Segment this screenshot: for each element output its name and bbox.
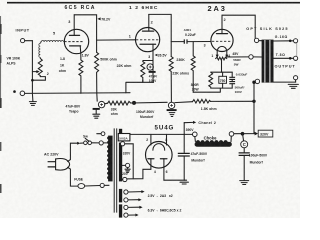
cap 0.033uF label xyxy=(236,73,248,77)
border frame top line xyxy=(7,2,300,4)
capacitor C-A 47uF-86V Teapo electrolytic xyxy=(93,101,105,113)
ground symbol cap A xyxy=(93,114,100,118)
V1 pins 1-8 label xyxy=(60,57,65,61)
capacitor V2 cathode bypass 47uF xyxy=(147,61,156,83)
V1 plate bar xyxy=(69,34,79,36)
V2 pin 2 label xyxy=(151,21,153,25)
PT HV tap2 terminal xyxy=(122,177,127,181)
cap 47uF label xyxy=(191,152,208,163)
wire V1 plate to V2 grid xyxy=(97,39,136,41)
V1 pin 3 label xyxy=(68,20,70,24)
resistor 1K cathode label xyxy=(59,64,66,73)
2A3 grid dashed xyxy=(212,40,232,42)
node 390V label xyxy=(186,128,195,132)
power transformer core xyxy=(114,128,117,212)
AC wires to switch and fuse xyxy=(68,142,84,162)
5U4G pin 6 label xyxy=(166,170,168,174)
wire OPT bottom to 320V node xyxy=(253,82,255,133)
label 320V tap1 xyxy=(123,151,131,155)
capacitor bias 0.033uF + 500uF stack xyxy=(229,72,235,88)
label INPUT xyxy=(16,28,30,33)
ground bar under 47uF xyxy=(164,180,189,184)
wire cap A to 33K xyxy=(105,102,108,105)
node 26.5V label xyxy=(155,54,168,58)
wire B+ rail right of cap B xyxy=(175,101,193,104)
PT 6.3V winding segment xyxy=(119,204,122,217)
choke left terminal xyxy=(184,132,197,142)
wire filament tap to OPT mid terminal xyxy=(228,56,249,58)
V2 plate bar xyxy=(143,30,154,32)
label 2.5V to 2A3 xyxy=(148,194,173,198)
5U4G filament leads xyxy=(151,134,167,145)
wire input to shield drop xyxy=(25,40,33,42)
Sw label xyxy=(83,135,88,139)
node +76.2V marker xyxy=(97,17,111,21)
wire B+ rail to 320V node xyxy=(211,100,255,102)
resistor 800R 20W zigzag xyxy=(209,72,213,88)
2A3 pin 2 label xyxy=(224,18,226,22)
wire hum center tap down xyxy=(221,59,223,72)
ground symbol output xyxy=(288,84,298,88)
wire HV tap1 drop xyxy=(125,144,133,179)
V2 pin 3 label xyxy=(148,55,150,59)
label G.16 ohm xyxy=(275,35,288,39)
PT 2.5V winding segment xyxy=(119,189,122,203)
label OUTPUT xyxy=(275,64,296,69)
resistor 33K label xyxy=(111,108,118,117)
wire choke line xyxy=(234,133,256,135)
2A3 pin 4 label xyxy=(228,54,230,58)
tube V2 6H8C envelope xyxy=(136,27,160,51)
resistor hum balance 560R zigzag xyxy=(216,57,227,60)
resistor 800R 20W label xyxy=(191,83,200,92)
wire input vertical down to ground bus xyxy=(31,41,33,94)
wire V2 plate top loop xyxy=(149,14,171,56)
AC bottom wire to fuse xyxy=(68,167,78,186)
ground symbol PSU cap xyxy=(240,181,249,185)
5U4G pin 4 label xyxy=(154,170,156,174)
5V/3A boxed label xyxy=(118,134,130,141)
output transformer OPT windings xyxy=(262,40,274,83)
op tube V1 6C5 envelope xyxy=(64,29,88,53)
V2 cathode network bottom wire xyxy=(126,80,154,93)
resistor 230K plate load zigzag xyxy=(169,57,173,103)
node C marker circle xyxy=(241,134,248,148)
left edge scan artifact xyxy=(0,16,2,193)
choke right terminal xyxy=(229,132,234,142)
capacitor 100uF-500V Mundorf (PSU) xyxy=(239,148,250,180)
2A3 filament arc xyxy=(217,46,227,50)
choke coil body xyxy=(195,140,232,147)
label 6.3V heaters xyxy=(148,208,182,212)
cap 500uF/100V label xyxy=(235,85,245,93)
AC plug prongs xyxy=(48,162,56,167)
2A3 plate lead xyxy=(221,15,223,33)
faint terminal link line xyxy=(296,43,298,56)
wire pin4 to HV tap xyxy=(127,169,151,179)
wire cap to 2A3 grid xyxy=(187,41,211,43)
bias network bottom wires xyxy=(193,88,232,92)
potentiometer VR1 body zigzag xyxy=(38,58,42,76)
output terminal 16 ohm xyxy=(294,39,298,43)
resistor 230K label xyxy=(176,58,185,62)
resistor 2A3 grid leak zigzag xyxy=(191,42,195,93)
wire V1 plate top loop xyxy=(74,15,96,53)
resistor 500K plate load zigzag xyxy=(95,52,99,101)
ground bus terminal dot xyxy=(13,90,16,93)
switch SW xyxy=(84,138,100,144)
wire pot wiper arm xyxy=(32,70,39,73)
junction pot ground xyxy=(31,79,34,82)
OPT primary bottom terminal xyxy=(254,79,259,83)
V1 pin 5 label xyxy=(53,32,55,36)
label T.8 ohm xyxy=(276,53,286,57)
cap 47uF/100V label xyxy=(149,74,157,82)
junction dot B+ at OPT column xyxy=(252,100,255,103)
cap B label xyxy=(136,110,155,119)
output terminal 8 ohm xyxy=(294,56,298,60)
cap A label xyxy=(66,105,81,114)
V2 pin 1 label xyxy=(129,34,131,38)
PT HV winding segment xyxy=(119,143,122,182)
resistor 1.8K zigzag xyxy=(193,99,211,103)
2A3 grid pin label xyxy=(204,43,206,47)
2A3 filament leads with arrows xyxy=(216,51,229,59)
PT 6.3V taps with arrows xyxy=(124,205,143,209)
capacitor 47uF-500V Mundorf xyxy=(178,153,190,180)
PSU cap label xyxy=(249,153,268,164)
2A3 plate bar xyxy=(217,33,228,35)
bias network top wire xyxy=(211,71,232,73)
resistor 750 boxed xyxy=(219,72,227,88)
5U4G pin 2 label xyxy=(146,138,148,142)
wire to Chanel 2 with arrow xyxy=(184,121,216,125)
input jack terminal xyxy=(21,39,25,43)
junction dot cap drop xyxy=(241,132,245,136)
V2 cathode network top wire xyxy=(143,60,153,62)
V1 cathode bar xyxy=(70,45,81,47)
rectifier 5U4G envelope xyxy=(146,142,173,169)
OPT secondary top tap wire xyxy=(274,40,294,43)
OPT secondary bottom tap wire xyxy=(274,81,296,83)
resistor R-cathode 1K zigzag xyxy=(79,60,83,93)
320V boxed label with arrow xyxy=(255,130,273,137)
capacitor 0.22uF coupling xyxy=(184,39,187,43)
potentiometer VR 100K ALPS label xyxy=(7,57,21,66)
resistor 1.8K label xyxy=(201,107,217,111)
wire 5V filament line xyxy=(130,133,184,135)
pot terminal 2 label xyxy=(47,72,49,76)
title V1 6C5 RCA xyxy=(65,5,96,11)
2A3 pin 1 label xyxy=(211,54,213,58)
PT 2.5V taps with arrows xyxy=(124,190,145,194)
OPT label xyxy=(246,27,288,31)
junction B+ rail dot xyxy=(132,101,136,105)
wire 2A3 plate to OPT primary top xyxy=(222,15,255,38)
PT primary aux terminal xyxy=(97,132,105,136)
5U4G plate bars xyxy=(148,158,167,160)
ground bus wire xyxy=(25,92,130,95)
OPT primary top terminal xyxy=(254,38,261,42)
resistor 500K label xyxy=(100,58,117,62)
junction dot OPT bottom xyxy=(252,81,255,84)
V1 plate lead wire xyxy=(73,15,75,36)
coupling wire V2 plate node to 0.22uF xyxy=(171,41,184,43)
V2 grid dashed xyxy=(136,39,159,41)
resistor 33K zigzag xyxy=(108,101,131,105)
V1 grid dashed xyxy=(64,41,83,43)
5U4G pin 8 label xyxy=(165,138,167,142)
tube 2A3 envelope xyxy=(211,29,233,51)
wire pot bottom hook to ground line xyxy=(32,77,45,81)
OPT primary mid terminal xyxy=(249,55,262,59)
OPT secondary mid tap wire xyxy=(274,57,294,60)
5U4G plate leads xyxy=(151,159,164,181)
ground bus terminal circle xyxy=(20,91,25,96)
AC plug body xyxy=(56,158,70,170)
PT 5V winding segment xyxy=(119,129,122,134)
V1 cathode lead xyxy=(79,46,82,60)
wire B+ rail middle xyxy=(131,101,168,104)
B+ node vertical wire xyxy=(183,123,185,153)
hum resistor 560R 5W labels xyxy=(233,58,241,66)
grid coil wire from pot to V1 pin5 xyxy=(39,40,64,58)
PT primary bottom terminal xyxy=(100,183,109,187)
fuse symbol xyxy=(78,184,100,189)
node 45V label xyxy=(232,52,239,56)
title V2 1/2 6H8C xyxy=(129,5,158,11)
label 320V tap2 xyxy=(120,172,128,176)
FUSE label xyxy=(74,178,84,182)
V2 plate lead xyxy=(148,14,150,31)
label AC 220V xyxy=(44,152,59,156)
resistor V2 cathode zigzag xyxy=(141,61,145,83)
resistor 22K ohms label xyxy=(172,72,189,76)
PT primary winding xyxy=(107,136,113,182)
PT center tap terminal xyxy=(122,163,130,172)
title 5U4G xyxy=(155,125,175,132)
resistor 22K label (V2 cathode) xyxy=(117,64,132,68)
Choke label xyxy=(204,136,217,141)
ground symbol input xyxy=(29,93,36,105)
PT primary top terminal xyxy=(99,141,108,145)
V2 cathode lead xyxy=(152,44,154,60)
node 1.8V label xyxy=(82,54,90,58)
V2 cathode bar xyxy=(140,43,156,45)
capacitor C-B 100uF-500V Mundorf electrolytic xyxy=(167,102,177,116)
5U4G filament arc xyxy=(153,144,165,151)
output common terminal xyxy=(294,76,298,83)
title 2A3 xyxy=(208,4,227,13)
PT HV tap1 terminal xyxy=(121,142,125,146)
cap 0.22uF labels xyxy=(184,28,196,37)
